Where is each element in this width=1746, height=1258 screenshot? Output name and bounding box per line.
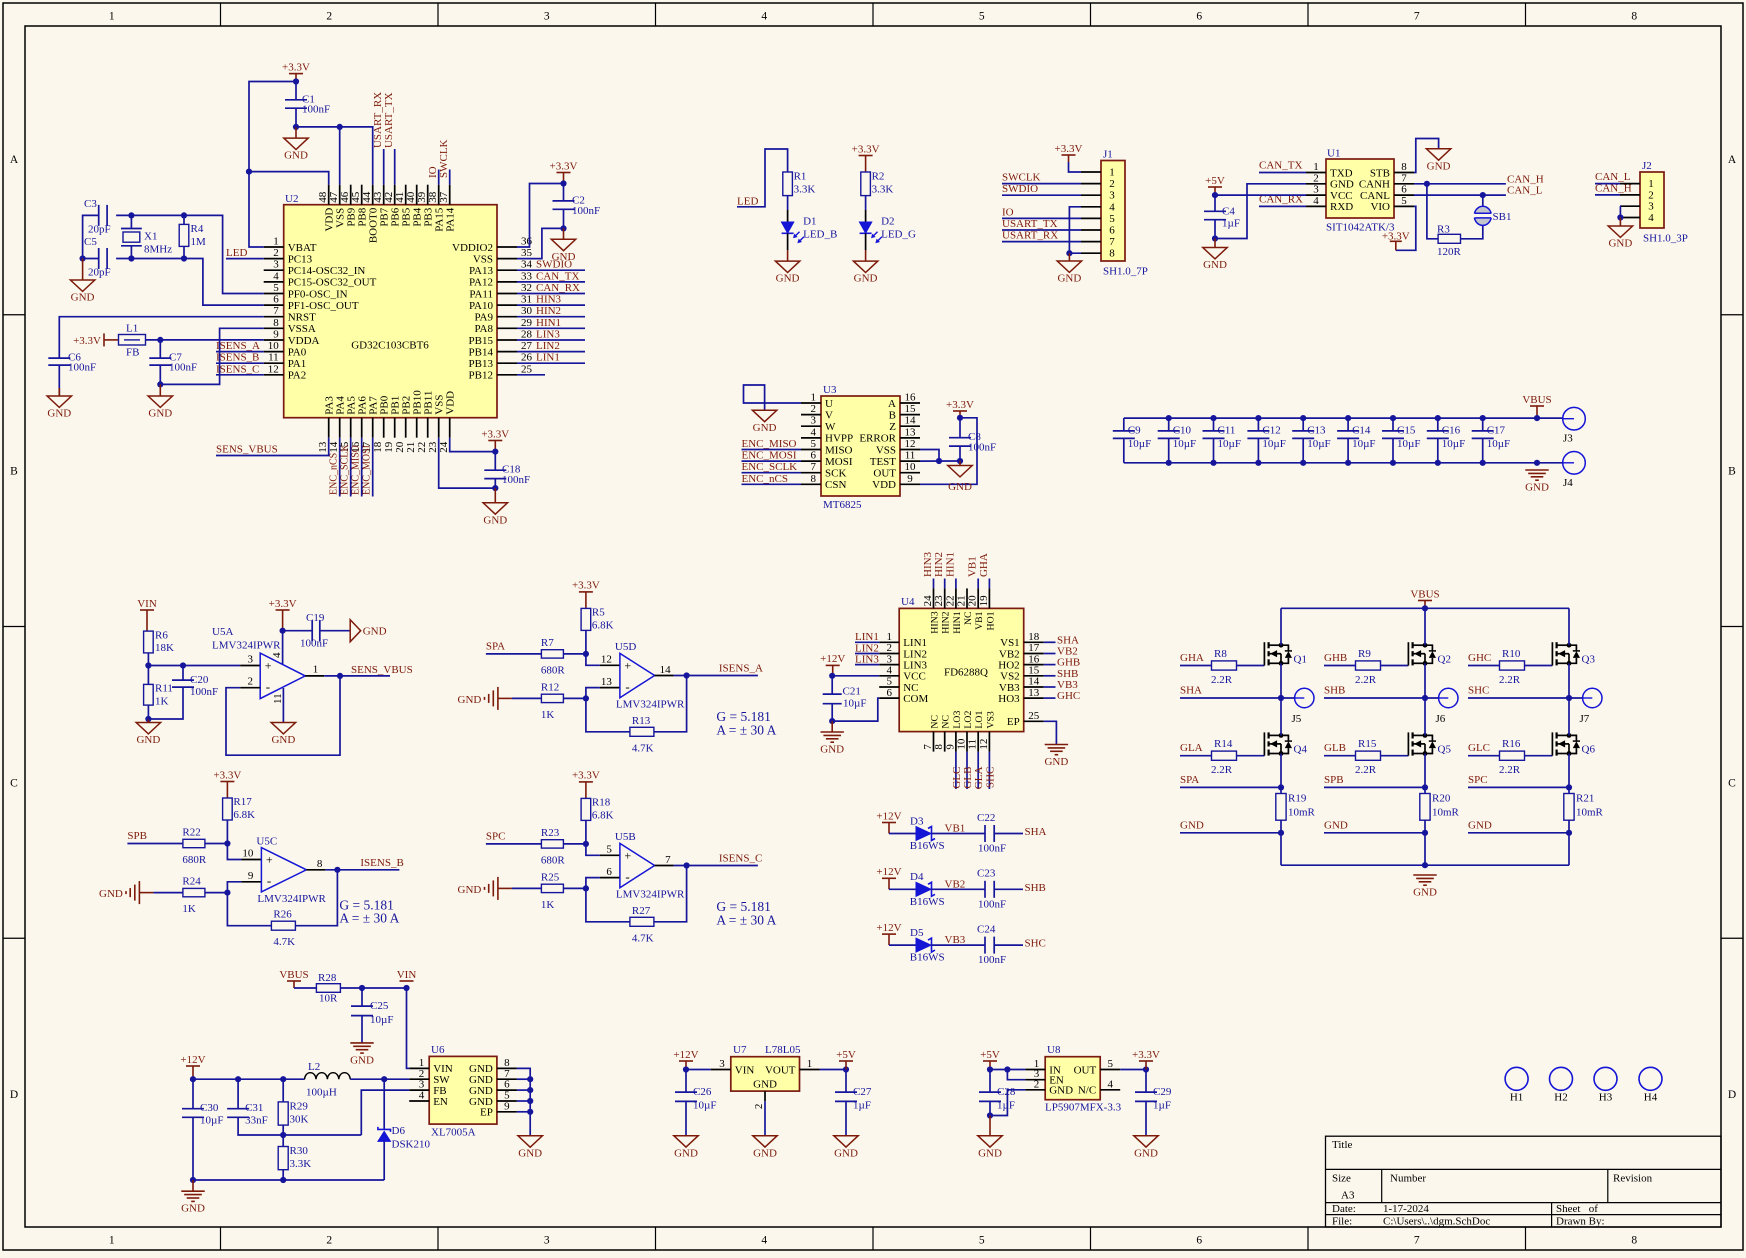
svg-text:100nF: 100nF: [302, 104, 330, 116]
svg-text:7: 7: [922, 744, 934, 750]
svg-text:6.8K: 6.8K: [592, 809, 614, 821]
svg-text:6: 6: [886, 687, 892, 699]
svg-text:GD32C103CBT6: GD32C103CBT6: [351, 340, 429, 352]
svg-text:1: 1: [811, 392, 817, 404]
svg-text:5: 5: [1401, 195, 1407, 207]
svg-text:10µF: 10µF: [1173, 438, 1196, 450]
svg-text:Drawn By:: Drawn By:: [1556, 1216, 1605, 1228]
svg-text:HIN3: HIN3: [536, 294, 562, 306]
svg-text:5: 5: [979, 1235, 985, 1247]
svg-text:Q5: Q5: [1438, 744, 1452, 756]
svg-text:NC: NC: [941, 715, 952, 729]
svg-text:LED: LED: [737, 196, 758, 208]
svg-text:10µF: 10µF: [693, 1100, 716, 1112]
svg-text:GND: GND: [674, 1147, 698, 1159]
svg-text:30: 30: [521, 305, 533, 317]
svg-text:1µF: 1µF: [1222, 218, 1240, 230]
svg-text:29: 29: [521, 317, 533, 329]
svg-text:GND: GND: [1203, 259, 1227, 271]
svg-text:LO1: LO1: [974, 711, 985, 729]
svg-text:D: D: [1728, 1089, 1736, 1101]
svg-text:+12V: +12V: [876, 866, 901, 878]
svg-text:RXD: RXD: [1330, 201, 1353, 213]
svg-text:GND: GND: [1413, 886, 1437, 898]
svg-text:GND: GND: [99, 888, 123, 900]
svg-text:11: 11: [905, 450, 916, 462]
svg-text:GHC: GHC: [1057, 690, 1080, 702]
svg-text:4: 4: [271, 652, 283, 658]
svg-text:GND: GND: [181, 1203, 205, 1215]
svg-text:4: 4: [1107, 1078, 1113, 1090]
svg-text:U4: U4: [901, 596, 915, 608]
svg-text:HIN1: HIN1: [952, 611, 963, 633]
svg-text:SPC: SPC: [1468, 774, 1488, 786]
svg-text:4.7K: 4.7K: [273, 936, 295, 948]
svg-text:100nF: 100nF: [978, 898, 1006, 910]
svg-text:20: 20: [967, 595, 979, 607]
svg-text:1µF: 1µF: [1153, 1100, 1171, 1112]
svg-text:B16WS: B16WS: [910, 952, 945, 964]
svg-text:2: 2: [1034, 1078, 1040, 1090]
svg-text:R25: R25: [541, 871, 560, 883]
svg-text:B16WS: B16WS: [910, 840, 945, 852]
svg-text:-: -: [267, 873, 271, 888]
svg-text:10µF: 10µF: [1442, 438, 1465, 450]
svg-text:TXD: TXD: [1330, 167, 1353, 179]
svg-text:GLC: GLC: [1468, 742, 1490, 754]
svg-text:24: 24: [438, 441, 450, 453]
svg-text:2: 2: [811, 403, 817, 415]
svg-text:18: 18: [1028, 631, 1040, 643]
svg-text:X1: X1: [144, 231, 157, 243]
svg-text:1: 1: [1648, 178, 1654, 190]
svg-text:32: 32: [521, 282, 532, 294]
svg-text:+3.3V: +3.3V: [550, 160, 578, 172]
svg-text:3: 3: [1109, 190, 1115, 202]
svg-text:FD6288Q: FD6288Q: [944, 666, 988, 678]
svg-text:R10: R10: [1502, 648, 1521, 660]
svg-text:VOUT: VOUT: [765, 1064, 796, 1076]
svg-text:A3: A3: [1341, 1190, 1355, 1202]
svg-text:HIN2: HIN2: [933, 552, 945, 577]
svg-text:J5: J5: [1292, 713, 1302, 725]
svg-text:R16: R16: [1502, 738, 1521, 750]
svg-text:8: 8: [1631, 11, 1637, 23]
svg-text:GND: GND: [518, 1147, 542, 1159]
svg-text:D2: D2: [881, 216, 894, 228]
svg-text:R3: R3: [1437, 224, 1450, 236]
svg-text:6: 6: [811, 450, 817, 462]
svg-text:SHB: SHB: [1025, 882, 1046, 894]
svg-text:LO2: LO2: [963, 711, 974, 729]
svg-text:2.2R: 2.2R: [1211, 674, 1233, 686]
svg-text:SENS_VBUS: SENS_VBUS: [216, 444, 278, 456]
svg-text:9: 9: [504, 1100, 510, 1112]
svg-text:PB13: PB13: [469, 358, 494, 370]
svg-text:VB1: VB1: [945, 823, 966, 835]
svg-text:CANH: CANH: [1359, 179, 1390, 191]
svg-text:C16: C16: [1442, 424, 1461, 436]
svg-text:15: 15: [1028, 665, 1040, 677]
svg-text:1M: 1M: [191, 236, 207, 248]
svg-text:GND: GND: [978, 1147, 1002, 1159]
svg-text:16: 16: [905, 392, 917, 404]
svg-text:1: 1: [1313, 161, 1319, 173]
svg-text:J4: J4: [1563, 477, 1573, 489]
svg-text:SHC: SHC: [1025, 938, 1046, 950]
svg-text:C21: C21: [843, 686, 861, 698]
svg-text:GLB: GLB: [1324, 742, 1346, 754]
svg-text:U2: U2: [285, 193, 298, 205]
svg-text:+12V: +12V: [180, 1054, 205, 1066]
svg-text:V: V: [825, 409, 833, 421]
svg-text:GND: GND: [271, 734, 295, 746]
svg-text:7: 7: [1401, 172, 1407, 184]
svg-text:VSS: VSS: [876, 444, 896, 456]
svg-text:IO: IO: [1002, 206, 1014, 218]
svg-text:C: C: [1728, 777, 1736, 789]
svg-text:+: +: [624, 849, 631, 863]
svg-text:R2: R2: [872, 171, 885, 183]
svg-text:100nF: 100nF: [300, 638, 328, 650]
svg-text:ISENS_B: ISENS_B: [360, 857, 403, 869]
svg-text:PA12: PA12: [469, 277, 493, 289]
svg-text:GND: GND: [71, 292, 95, 304]
svg-text:GND: GND: [834, 1147, 858, 1159]
svg-text:C3: C3: [84, 198, 97, 210]
svg-text:Z: Z: [889, 421, 896, 433]
svg-text:LIN1: LIN1: [855, 631, 879, 643]
svg-text:SPB: SPB: [127, 830, 147, 842]
svg-text:ENC_nCS: ENC_nCS: [742, 473, 788, 485]
svg-text:R17: R17: [233, 796, 252, 808]
svg-text:C5: C5: [84, 236, 97, 248]
svg-text:2: 2: [753, 1104, 765, 1110]
svg-text:5: 5: [811, 438, 817, 450]
svg-text:GND: GND: [458, 884, 482, 896]
svg-text:1K: 1K: [155, 696, 169, 708]
svg-text:SPA: SPA: [1180, 774, 1199, 786]
svg-text:ENC_SCLK: ENC_SCLK: [742, 461, 798, 473]
svg-text:A = ± 30 A: A = ± 30 A: [716, 912, 776, 927]
svg-text:VSS: VSS: [473, 253, 493, 265]
svg-text:OUT: OUT: [1074, 1064, 1097, 1076]
svg-text:LED: LED: [226, 247, 247, 259]
svg-text:GND: GND: [1134, 1147, 1158, 1159]
svg-text:TEST: TEST: [870, 456, 897, 468]
svg-text:ISENS_C: ISENS_C: [719, 853, 762, 865]
svg-text:6: 6: [1401, 184, 1407, 196]
svg-text:2.2R: 2.2R: [1499, 674, 1521, 686]
svg-text:2.2R: 2.2R: [1211, 764, 1233, 776]
svg-text:GND: GND: [1057, 273, 1081, 285]
svg-text:A: A: [10, 154, 19, 166]
svg-text:D3: D3: [910, 815, 924, 827]
svg-text:26: 26: [521, 352, 533, 364]
svg-text:U1: U1: [1327, 148, 1340, 160]
svg-text:7: 7: [1414, 1235, 1420, 1247]
svg-text:-: -: [625, 679, 629, 694]
svg-text:3.3K: 3.3K: [290, 1158, 312, 1170]
svg-text:H1: H1: [1510, 1092, 1523, 1104]
svg-text:+: +: [266, 853, 273, 867]
svg-text:GHB: GHB: [1057, 657, 1080, 669]
svg-text:EP: EP: [480, 1107, 493, 1119]
svg-text:GND: GND: [284, 150, 308, 162]
svg-text:VS1: VS1: [1000, 637, 1020, 649]
svg-text:28: 28: [521, 329, 533, 341]
svg-text:+5V: +5V: [1205, 175, 1225, 187]
svg-text:3.3K: 3.3K: [794, 184, 816, 196]
svg-text:R14: R14: [1214, 738, 1233, 750]
svg-text:1K: 1K: [182, 903, 196, 915]
svg-text:MT6825: MT6825: [823, 499, 862, 511]
svg-text:ISENS_A: ISENS_A: [216, 340, 260, 352]
svg-text:4: 4: [761, 11, 767, 23]
svg-text:ISENS_A: ISENS_A: [719, 663, 763, 675]
svg-text:D6: D6: [392, 1125, 406, 1137]
svg-text:10: 10: [956, 738, 968, 750]
svg-text:13: 13: [601, 676, 613, 688]
svg-text:30K: 30K: [290, 1113, 309, 1125]
svg-text:GND: GND: [363, 626, 387, 638]
svg-text:C:\Users\..\dgm.SchDoc: C:\Users\..\dgm.SchDoc: [1383, 1216, 1490, 1228]
svg-text:1: 1: [273, 236, 279, 248]
svg-text:10µF: 10µF: [370, 1014, 393, 1026]
svg-text:13: 13: [1028, 687, 1040, 699]
svg-text:20pF: 20pF: [88, 267, 111, 279]
svg-text:1µF: 1µF: [997, 1100, 1015, 1112]
svg-text:PA11: PA11: [469, 288, 493, 300]
svg-text:HIN2: HIN2: [941, 611, 952, 633]
svg-text:19: 19: [978, 595, 990, 607]
svg-text:33: 33: [521, 270, 533, 282]
svg-text:LO3: LO3: [952, 711, 963, 729]
svg-text:7: 7: [1414, 11, 1420, 23]
svg-text:VSSA: VSSA: [288, 323, 316, 335]
svg-text:SHC: SHC: [984, 767, 996, 788]
svg-text:10R: 10R: [319, 993, 338, 1005]
svg-text:+5V: +5V: [980, 1049, 1000, 1061]
svg-text:C28: C28: [997, 1086, 1016, 1098]
svg-text:U5A: U5A: [212, 626, 233, 638]
svg-text:SH1.0_3P: SH1.0_3P: [1643, 233, 1688, 245]
svg-text:23: 23: [933, 595, 945, 607]
svg-text:J3: J3: [1563, 433, 1573, 445]
svg-text:1-17-2024: 1-17-2024: [1383, 1203, 1429, 1215]
svg-text:10µF: 10µF: [200, 1115, 223, 1127]
svg-text:R26: R26: [273, 909, 292, 921]
svg-text:4: 4: [1109, 201, 1115, 213]
svg-text:10µF: 10µF: [1307, 438, 1330, 450]
svg-text:+3.3V: +3.3V: [1055, 143, 1083, 155]
svg-text:C10: C10: [1173, 424, 1192, 436]
svg-text:CAN_RX: CAN_RX: [536, 282, 580, 294]
svg-text:+: +: [265, 659, 272, 673]
svg-text:Q4: Q4: [1294, 744, 1308, 756]
svg-text:PC13: PC13: [288, 253, 313, 265]
svg-text:GLA: GLA: [973, 767, 985, 790]
svg-text:VS2: VS2: [1000, 671, 1020, 683]
svg-text:CAN_TX: CAN_TX: [1259, 160, 1302, 172]
svg-text:13: 13: [905, 426, 917, 438]
svg-text:VBAT: VBAT: [288, 242, 317, 254]
svg-text:R23: R23: [541, 827, 560, 839]
svg-text:2.2R: 2.2R: [1355, 764, 1377, 776]
svg-text:25: 25: [1028, 710, 1040, 722]
svg-text:15: 15: [905, 403, 917, 415]
svg-text:GND: GND: [753, 1147, 777, 1159]
svg-text:SENS_VBUS: SENS_VBUS: [351, 664, 413, 676]
svg-text:2: 2: [1313, 172, 1319, 184]
svg-text:Size: Size: [1332, 1173, 1351, 1185]
svg-text:9: 9: [273, 329, 279, 341]
svg-text:2: 2: [1109, 178, 1115, 190]
svg-text:3.3K: 3.3K: [872, 184, 894, 196]
svg-text:ENC_nCS: ENC_nCS: [329, 453, 340, 495]
svg-text:GND: GND: [483, 514, 507, 526]
svg-text:680R: 680R: [182, 854, 207, 866]
svg-text:USART_TX: USART_TX: [383, 92, 395, 148]
svg-text:LIN2: LIN2: [536, 340, 560, 352]
svg-text:GND: GND: [1427, 160, 1451, 172]
svg-text:VCC: VCC: [1330, 190, 1353, 202]
svg-text:R1: R1: [794, 171, 807, 183]
svg-text:SWDIO: SWDIO: [1002, 183, 1038, 195]
svg-text:10: 10: [268, 340, 280, 352]
svg-text:VB2: VB2: [945, 878, 966, 890]
svg-text:35: 35: [521, 247, 533, 259]
svg-text:5: 5: [886, 676, 892, 688]
svg-text:14: 14: [1028, 676, 1040, 688]
svg-text:HVPP: HVPP: [825, 433, 853, 445]
svg-text:2: 2: [248, 676, 254, 688]
svg-text:C14: C14: [1352, 424, 1371, 436]
svg-text:C15: C15: [1397, 424, 1416, 436]
svg-text:R5: R5: [592, 606, 605, 618]
svg-text:Q2: Q2: [1438, 654, 1451, 666]
svg-text:A = ± 30 A: A = ± 30 A: [716, 722, 776, 737]
svg-text:U6: U6: [431, 1044, 445, 1056]
svg-text:H4: H4: [1644, 1092, 1658, 1104]
svg-text:C23: C23: [977, 868, 996, 880]
svg-text:GND: GND: [1044, 756, 1068, 768]
svg-text:25: 25: [521, 363, 533, 375]
svg-text:PA0: PA0: [288, 346, 307, 358]
svg-text:C9: C9: [1128, 424, 1141, 436]
svg-text:J6: J6: [1436, 713, 1446, 725]
svg-text:+3.3V: +3.3V: [946, 399, 974, 411]
svg-text:SHA: SHA: [1057, 634, 1079, 646]
svg-text:9: 9: [907, 473, 913, 485]
svg-text:12: 12: [905, 438, 916, 450]
svg-text:+3.3V: +3.3V: [572, 770, 600, 782]
svg-text:+5V: +5V: [836, 1049, 856, 1061]
svg-text:LIN3: LIN3: [536, 329, 560, 341]
svg-text:D: D: [10, 1089, 18, 1101]
svg-text:+12V: +12V: [876, 922, 901, 934]
svg-text:R22: R22: [182, 827, 200, 839]
svg-text:+3.3V: +3.3V: [73, 335, 101, 347]
svg-text:2.2R: 2.2R: [1499, 764, 1521, 776]
svg-text:31: 31: [521, 294, 532, 306]
svg-text:GND: GND: [1049, 1085, 1073, 1097]
svg-text:GLB: GLB: [962, 767, 974, 789]
svg-text:SPC: SPC: [486, 830, 506, 842]
svg-text:+12V: +12V: [876, 810, 901, 822]
svg-text:10µF: 10µF: [1128, 438, 1151, 450]
svg-text:GND: GND: [1525, 481, 1549, 493]
svg-text:CSN: CSN: [825, 479, 846, 491]
svg-text:PA13: PA13: [469, 265, 494, 277]
svg-text:R9: R9: [1358, 648, 1371, 660]
svg-text:DSK210: DSK210: [392, 1139, 431, 1151]
svg-text:PA1: PA1: [288, 358, 307, 370]
svg-text:VBUS: VBUS: [1522, 394, 1551, 406]
svg-text:R15: R15: [1358, 738, 1377, 750]
svg-text:4.7K: 4.7K: [632, 932, 654, 944]
svg-text:C11: C11: [1218, 424, 1236, 436]
svg-text:14: 14: [660, 664, 672, 676]
svg-text:PC14-OSC32_IN: PC14-OSC32_IN: [288, 265, 366, 277]
svg-text:GND: GND: [47, 408, 71, 420]
svg-text:1: 1: [886, 631, 892, 643]
svg-text:HO2: HO2: [998, 659, 1019, 671]
svg-text:GND: GND: [1180, 819, 1204, 831]
svg-text:6: 6: [606, 866, 612, 878]
svg-text:10µF: 10µF: [1218, 438, 1241, 450]
svg-text:37: 37: [438, 191, 450, 203]
svg-text:Title: Title: [1332, 1139, 1353, 1151]
svg-text:VDD: VDD: [872, 479, 896, 491]
svg-text:D5: D5: [910, 927, 924, 939]
svg-text:8MHz: 8MHz: [144, 244, 172, 256]
svg-text:SPA: SPA: [486, 640, 505, 652]
svg-text:10µF: 10µF: [1397, 438, 1420, 450]
svg-text:GND: GND: [753, 1079, 777, 1091]
svg-text:GND: GND: [753, 422, 777, 434]
svg-text:Sheet of: Sheet of: [1556, 1203, 1598, 1215]
svg-text:12: 12: [601, 654, 612, 666]
svg-text:SCK: SCK: [825, 468, 846, 480]
svg-text:U: U: [825, 398, 833, 410]
svg-text:STB: STB: [1370, 167, 1390, 179]
svg-text:R28: R28: [318, 972, 337, 984]
svg-text:OUT: OUT: [873, 468, 896, 480]
svg-text:6: 6: [1109, 225, 1115, 237]
svg-text:6: 6: [1196, 11, 1202, 23]
svg-text:L78L05: L78L05: [765, 1044, 801, 1056]
svg-text:GHC: GHC: [1468, 652, 1491, 664]
svg-text:LMV324IPWR: LMV324IPWR: [616, 699, 685, 711]
svg-text:+12V: +12V: [820, 653, 845, 665]
svg-text:CAN_L: CAN_L: [1595, 171, 1631, 183]
svg-text:100µH: 100µH: [306, 1087, 337, 1099]
svg-text:U5C: U5C: [256, 835, 277, 847]
svg-text:CAN_L: CAN_L: [1507, 185, 1543, 197]
svg-text:VIN: VIN: [137, 598, 157, 610]
svg-text:C17: C17: [1487, 424, 1506, 436]
svg-text:ENC_MISO: ENC_MISO: [351, 445, 362, 495]
svg-text:10mR: 10mR: [1576, 807, 1604, 819]
svg-text:C30: C30: [200, 1102, 219, 1114]
svg-text:+3.3V: +3.3V: [282, 61, 310, 73]
svg-text:B: B: [10, 466, 18, 478]
svg-text:C4: C4: [1222, 206, 1235, 218]
svg-text:+3.3V: +3.3V: [269, 598, 297, 610]
svg-text:R6: R6: [155, 630, 168, 642]
svg-text:33nF: 33nF: [245, 1115, 268, 1127]
